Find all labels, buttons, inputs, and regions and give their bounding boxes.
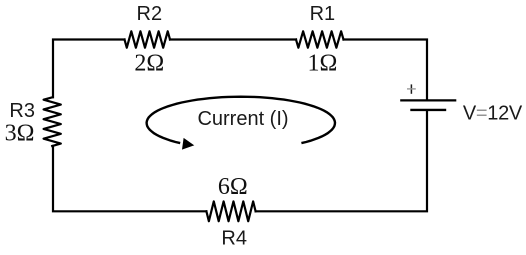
svg-text:2Ω: 2Ω bbox=[134, 50, 164, 76]
current loop arc bbox=[147, 97, 335, 143]
battery plus sign bbox=[407, 84, 416, 93]
battery V1 short plate bbox=[412, 109, 446, 111]
resistor R2 zigzag bbox=[125, 31, 171, 47]
svg-text:V=12V: V=12V bbox=[463, 102, 523, 124]
svg-text:R3: R3 bbox=[9, 100, 35, 122]
wire top middle segment bbox=[170, 38, 296, 40]
svg-text:6Ω: 6Ω bbox=[218, 174, 248, 200]
resistor R4 zigzag bbox=[206, 201, 255, 221]
svg-text:3Ω: 3Ω bbox=[5, 121, 35, 147]
wire top-left segment bbox=[53, 40, 125, 98]
svg-text:R4: R4 bbox=[221, 228, 247, 250]
svg-text:Current (I): Current (I) bbox=[197, 108, 288, 130]
resistor R3 zigzag bbox=[44, 97, 61, 146]
current loop arrowhead bbox=[183, 139, 194, 149]
wire right lower segment bbox=[256, 111, 427, 211]
wire bottom-left segment bbox=[53, 146, 206, 211]
svg-text:R2: R2 bbox=[137, 3, 163, 25]
svg-text:1Ω: 1Ω bbox=[307, 50, 337, 76]
svg-text:R1: R1 bbox=[310, 3, 336, 25]
wire top-right segment bbox=[344, 40, 428, 100]
resistor R1 zigzag bbox=[296, 31, 344, 47]
battery V1 long plate bbox=[401, 99, 455, 101]
